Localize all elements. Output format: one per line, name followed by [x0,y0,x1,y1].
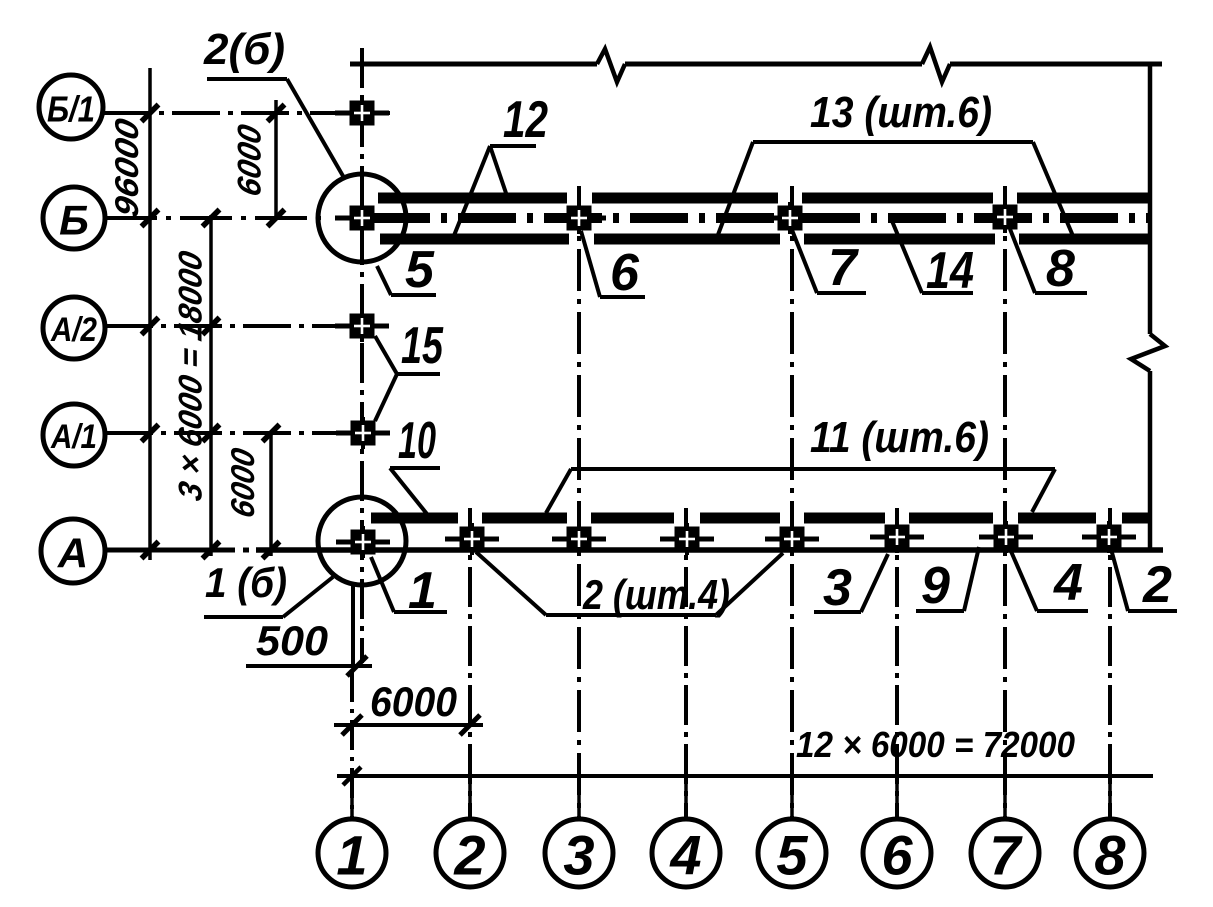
leader label 14 [922,291,973,295]
svg-text:12 × 6000 = 72000: 12 × 6000 = 72000 [796,724,1075,765]
svg-text:15: 15 [401,317,444,375]
svg-text:96000: 96000 [109,115,146,220]
column marker Б-3 [552,216,606,221]
leader label 4 [1037,609,1088,613]
row Б lower thick dashed line [380,234,569,245]
leader label 5 [391,293,436,297]
leader label 12 [490,144,536,148]
detail circle at А-1 [318,497,406,585]
svg-text:8: 8 [1094,824,1126,887]
svg-text:А: А [57,530,88,577]
leader label 9 [916,609,964,613]
dimension line 6000 between Б/1 and Б [274,100,278,220]
leader label 13 (шт.6) [753,140,1033,144]
leader label 3 [814,610,861,614]
axis circle 4 [652,819,720,887]
axis circle 1 [318,819,386,887]
svg-text:10: 10 [398,412,436,470]
column marker А-8 [1082,535,1136,540]
leader label 11 (шт.6) [571,467,1055,471]
axis 3 line [577,186,581,818]
leader label 2 (шт.4) [546,613,716,617]
leader label 6 [600,295,645,299]
dimension line 6000 between А/1 and А [269,433,273,556]
svg-text:5: 5 [776,824,808,887]
svg-text:2: 2 [1142,556,1172,614]
axis 2 line [468,508,472,818]
row А thick dashed line [371,513,458,524]
axis 7 line [1003,186,1007,818]
column line axis 1 (offset 500) [360,48,364,663]
svg-text:1: 1 [336,824,367,887]
svg-text:12: 12 [503,91,548,149]
svg-text:13 (шт.6): 13 (шт.6) [810,88,992,137]
column marker Б-5 [763,216,817,221]
svg-text:2: 2 [453,824,485,887]
svg-text:5: 5 [405,241,435,299]
leader label 10 [390,466,440,470]
axis circle 7 [971,819,1039,887]
dimension ticks on x150 [142,105,159,122]
svg-text:1: 1 [408,562,437,620]
column marker А/2-1 [335,324,389,329]
dimension extension line x211 [209,215,213,556]
axis circle А/1 [43,404,105,466]
axis circle А/2 [43,297,105,359]
row Б upper thick dashed line [378,193,567,204]
leader label 7 [817,291,866,295]
column marker Б/1-1 [335,111,389,116]
top boundary line with break symbols [350,62,597,67]
axis line Б/1 [103,111,390,115]
svg-text:3: 3 [563,824,594,887]
axis circle 7 bottom stub [1003,776,1007,819]
axis circle 4 bottom stub [684,776,688,819]
leader label 1 [394,610,447,614]
axis 1 lower line [351,585,355,665]
axis 4 line [684,508,688,818]
svg-text:3: 3 [823,559,852,617]
column marker А-1 [336,540,390,545]
svg-text:6000: 6000 [225,445,262,521]
axis circle 8 bottom stub [1108,776,1112,819]
leader label 15 [397,372,440,376]
svg-text:2(б): 2(б) [203,25,285,74]
svg-text:6000: 6000 [232,121,269,199]
axis circle 2 bottom stub [468,776,472,819]
column marker Б-7 [978,215,1032,220]
column marker А-3 [552,537,606,542]
axis 5 line [790,186,794,818]
svg-text:Б: Б [59,197,89,244]
svg-text:6000: 6000 [370,678,457,725]
svg-text:14: 14 [926,242,974,300]
axis line А/1 [105,431,389,435]
svg-text:4: 4 [1053,554,1083,612]
axis circle 2 [436,819,504,887]
axis circle 5 [758,819,826,887]
axis circle Б [43,187,105,249]
dimension extension line x150 [148,68,152,560]
svg-text:1 (б): 1 (б) [205,559,287,606]
leader label 2 right [1128,609,1177,613]
svg-text:А/2: А/2 [50,311,97,349]
svg-text:8: 8 [1046,240,1075,298]
axis 8 line [1108,508,1112,818]
column marker А-7 [979,535,1033,540]
axis circle 6 [863,819,931,887]
detail circle at Б-1 [318,174,406,262]
column marker Б-1 [335,216,389,221]
axis circle 3 [545,819,613,887]
axis circle 8 [1076,819,1144,887]
svg-text:7: 7 [989,824,1023,887]
axis line А solid [105,548,235,553]
svg-text:11 (шт.6): 11 (шт.6) [810,413,989,462]
column marker А/1-1 [336,431,390,436]
svg-text:500: 500 [256,617,328,664]
svg-text:2 (шт.4): 2 (шт.4) [582,571,730,618]
row Б axis thick dash-dot line [372,213,1152,223]
axis line Б thin part [105,216,330,220]
right boundary line with break symbol [1148,64,1153,334]
column marker А-6 [870,535,924,540]
svg-text:6: 6 [610,244,640,302]
axis line А/2 [105,324,389,328]
svg-text:4: 4 [669,824,701,887]
svg-text:7: 7 [828,239,859,297]
svg-text:А/1: А/1 [50,418,97,456]
svg-text:3 × 6000 = 18000: 3 × 6000 = 18000 [173,248,210,504]
axis circle 6 bottom stub [895,776,899,819]
column marker А-4 [660,537,714,542]
column marker А-2 [445,537,499,542]
column marker А-5 [765,537,819,542]
dimension line 12x6000=72000 [337,774,1153,778]
axis 6 line [895,508,899,818]
svg-text:9: 9 [921,557,950,615]
leader label 8 [1035,291,1087,295]
svg-text:6: 6 [881,824,913,887]
axis circle А [41,519,105,583]
axis circle 3 bottom stub [577,776,581,819]
dimension ticks on x211 [203,210,220,227]
axis circle 1 bottom stub [350,776,354,819]
axis circle Б/1 [39,75,103,139]
leader label 1(б) [204,615,283,619]
axis circle 5 bottom stub [790,776,794,819]
leader label 2(б) [207,77,287,81]
dimension line 6000 bottom [334,723,483,727]
svg-text:Б/1: Б/1 [47,89,95,130]
dimension line 500 [246,664,372,668]
